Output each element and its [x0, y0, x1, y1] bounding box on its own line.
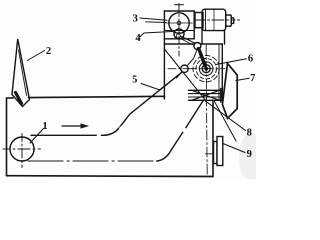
leader 1 — [30, 129, 44, 144]
support vertical under motor right — [224, 31, 226, 44]
assembly left wall — [163, 11, 165, 99]
wheel vertical dash-dot long — [206, 45, 207, 174]
tank left wall — [6, 98, 8, 176]
tension arm — [197, 47, 208, 68]
small pulley hub dot — [176, 34, 180, 38]
bracket line 3 — [189, 96, 223, 98]
big pulley center dot — [177, 21, 181, 25]
pivot circle — [194, 43, 201, 50]
big pulley horizontal centerline — [166, 22, 193, 24]
leader 8 — [205, 101, 246, 131]
lower belt curve and diagonal — [157, 100, 204, 161]
flange outer plate — [217, 137, 223, 166]
leader 7 — [236, 78, 249, 80]
wheel hub ring 2 — [199, 62, 213, 76]
leader 4 — [140, 32, 173, 38]
bracket X brace b — [192, 90, 220, 100]
svg-text:8: 8 — [247, 127, 252, 138]
bracket line 1 — [189, 89, 223, 91]
housing box right — [193, 11, 195, 39]
svg-text:9: 9 — [247, 149, 252, 160]
svg-text:7: 7 — [250, 73, 255, 84]
tank bottom edge — [7, 175, 214, 178]
flange inner plate — [214, 142, 218, 164]
housing top tick — [175, 4, 184, 6]
blade inner line — [19, 50, 27, 96]
bracket line 2 — [189, 93, 223, 95]
motor connector box — [195, 13, 203, 28]
blade shading streak — [16, 93, 22, 104]
upper belt run — [31, 71, 183, 135]
drive belt line b — [181, 39, 194, 45]
blade 2 — [12, 39, 30, 107]
svg-text:3: 3 — [133, 13, 138, 24]
tank right wall — [212, 101, 214, 176]
tank top edge left segment — [7, 97, 14, 99]
pulley 1 vertical centerline — [21, 134, 23, 168]
chute diagonal — [215, 102, 237, 142]
pulley 1 horizontal centerline — [3, 148, 41, 150]
wheel dashed circle outer — [193, 55, 219, 81]
lower belt run dash-dot — [28, 160, 158, 162]
support vertical under motor left — [201, 28, 203, 45]
svg-text:1: 1 — [42, 121, 47, 132]
leader 6 — [216, 59, 247, 65]
motor shaft nub — [226, 15, 232, 26]
idler circle — [181, 65, 188, 72]
scan smudge — [239, 133, 263, 181]
motor shaft tip — [231, 18, 234, 24]
drive belt line a — [182, 37, 195, 44]
crosshair extension line — [146, 21, 167, 24]
bracket line 4 — [189, 99, 223, 101]
strut diagonal — [164, 49, 205, 100]
belt dash gaps — [98, 127, 186, 136]
housing box bottom — [164, 38, 194, 40]
wheel box right wall outer — [221, 44, 223, 100]
wheel hub ring 1 — [202, 65, 210, 73]
tank top edge right segment — [29, 96, 165, 97]
leader 9 — [223, 144, 245, 153]
pulley 1 circle — [10, 137, 34, 161]
wheel dashed circle inner — [196, 58, 216, 78]
vertical dash-dot through housing — [178, 4, 180, 57]
svg-text:6: 6 — [248, 53, 253, 64]
motor mid line — [213, 9, 215, 30]
motor body — [202, 9, 226, 30]
housing box top — [164, 10, 194, 12]
deflector plate 7 — [222, 63, 237, 118]
svg-text:2: 2 — [46, 46, 51, 57]
idler link line — [177, 48, 198, 78]
svg-text:4: 4 — [135, 33, 141, 44]
flow arrow — [62, 125, 83, 127]
leader 5 — [141, 84, 160, 91]
housing chord line — [164, 30, 194, 32]
bracket end cap — [220, 89, 222, 103]
motor flange line — [205, 9, 207, 30]
small pulley circle — [174, 29, 184, 39]
wheel horizontal centerline — [168, 68, 225, 70]
leader 3 — [140, 18, 167, 20]
wheel hub dot — [204, 67, 208, 71]
big pulley circle — [169, 13, 189, 33]
wheel box top — [164, 43, 222, 45]
svg-text:5: 5 — [132, 75, 137, 86]
bracket X brace a — [192, 90, 220, 100]
leader 2 — [27, 51, 44, 61]
flange pipe centerline — [206, 153, 214, 155]
wheel box right wall inner — [218, 44, 220, 100]
motor axis dash-dot — [194, 19, 240, 21]
